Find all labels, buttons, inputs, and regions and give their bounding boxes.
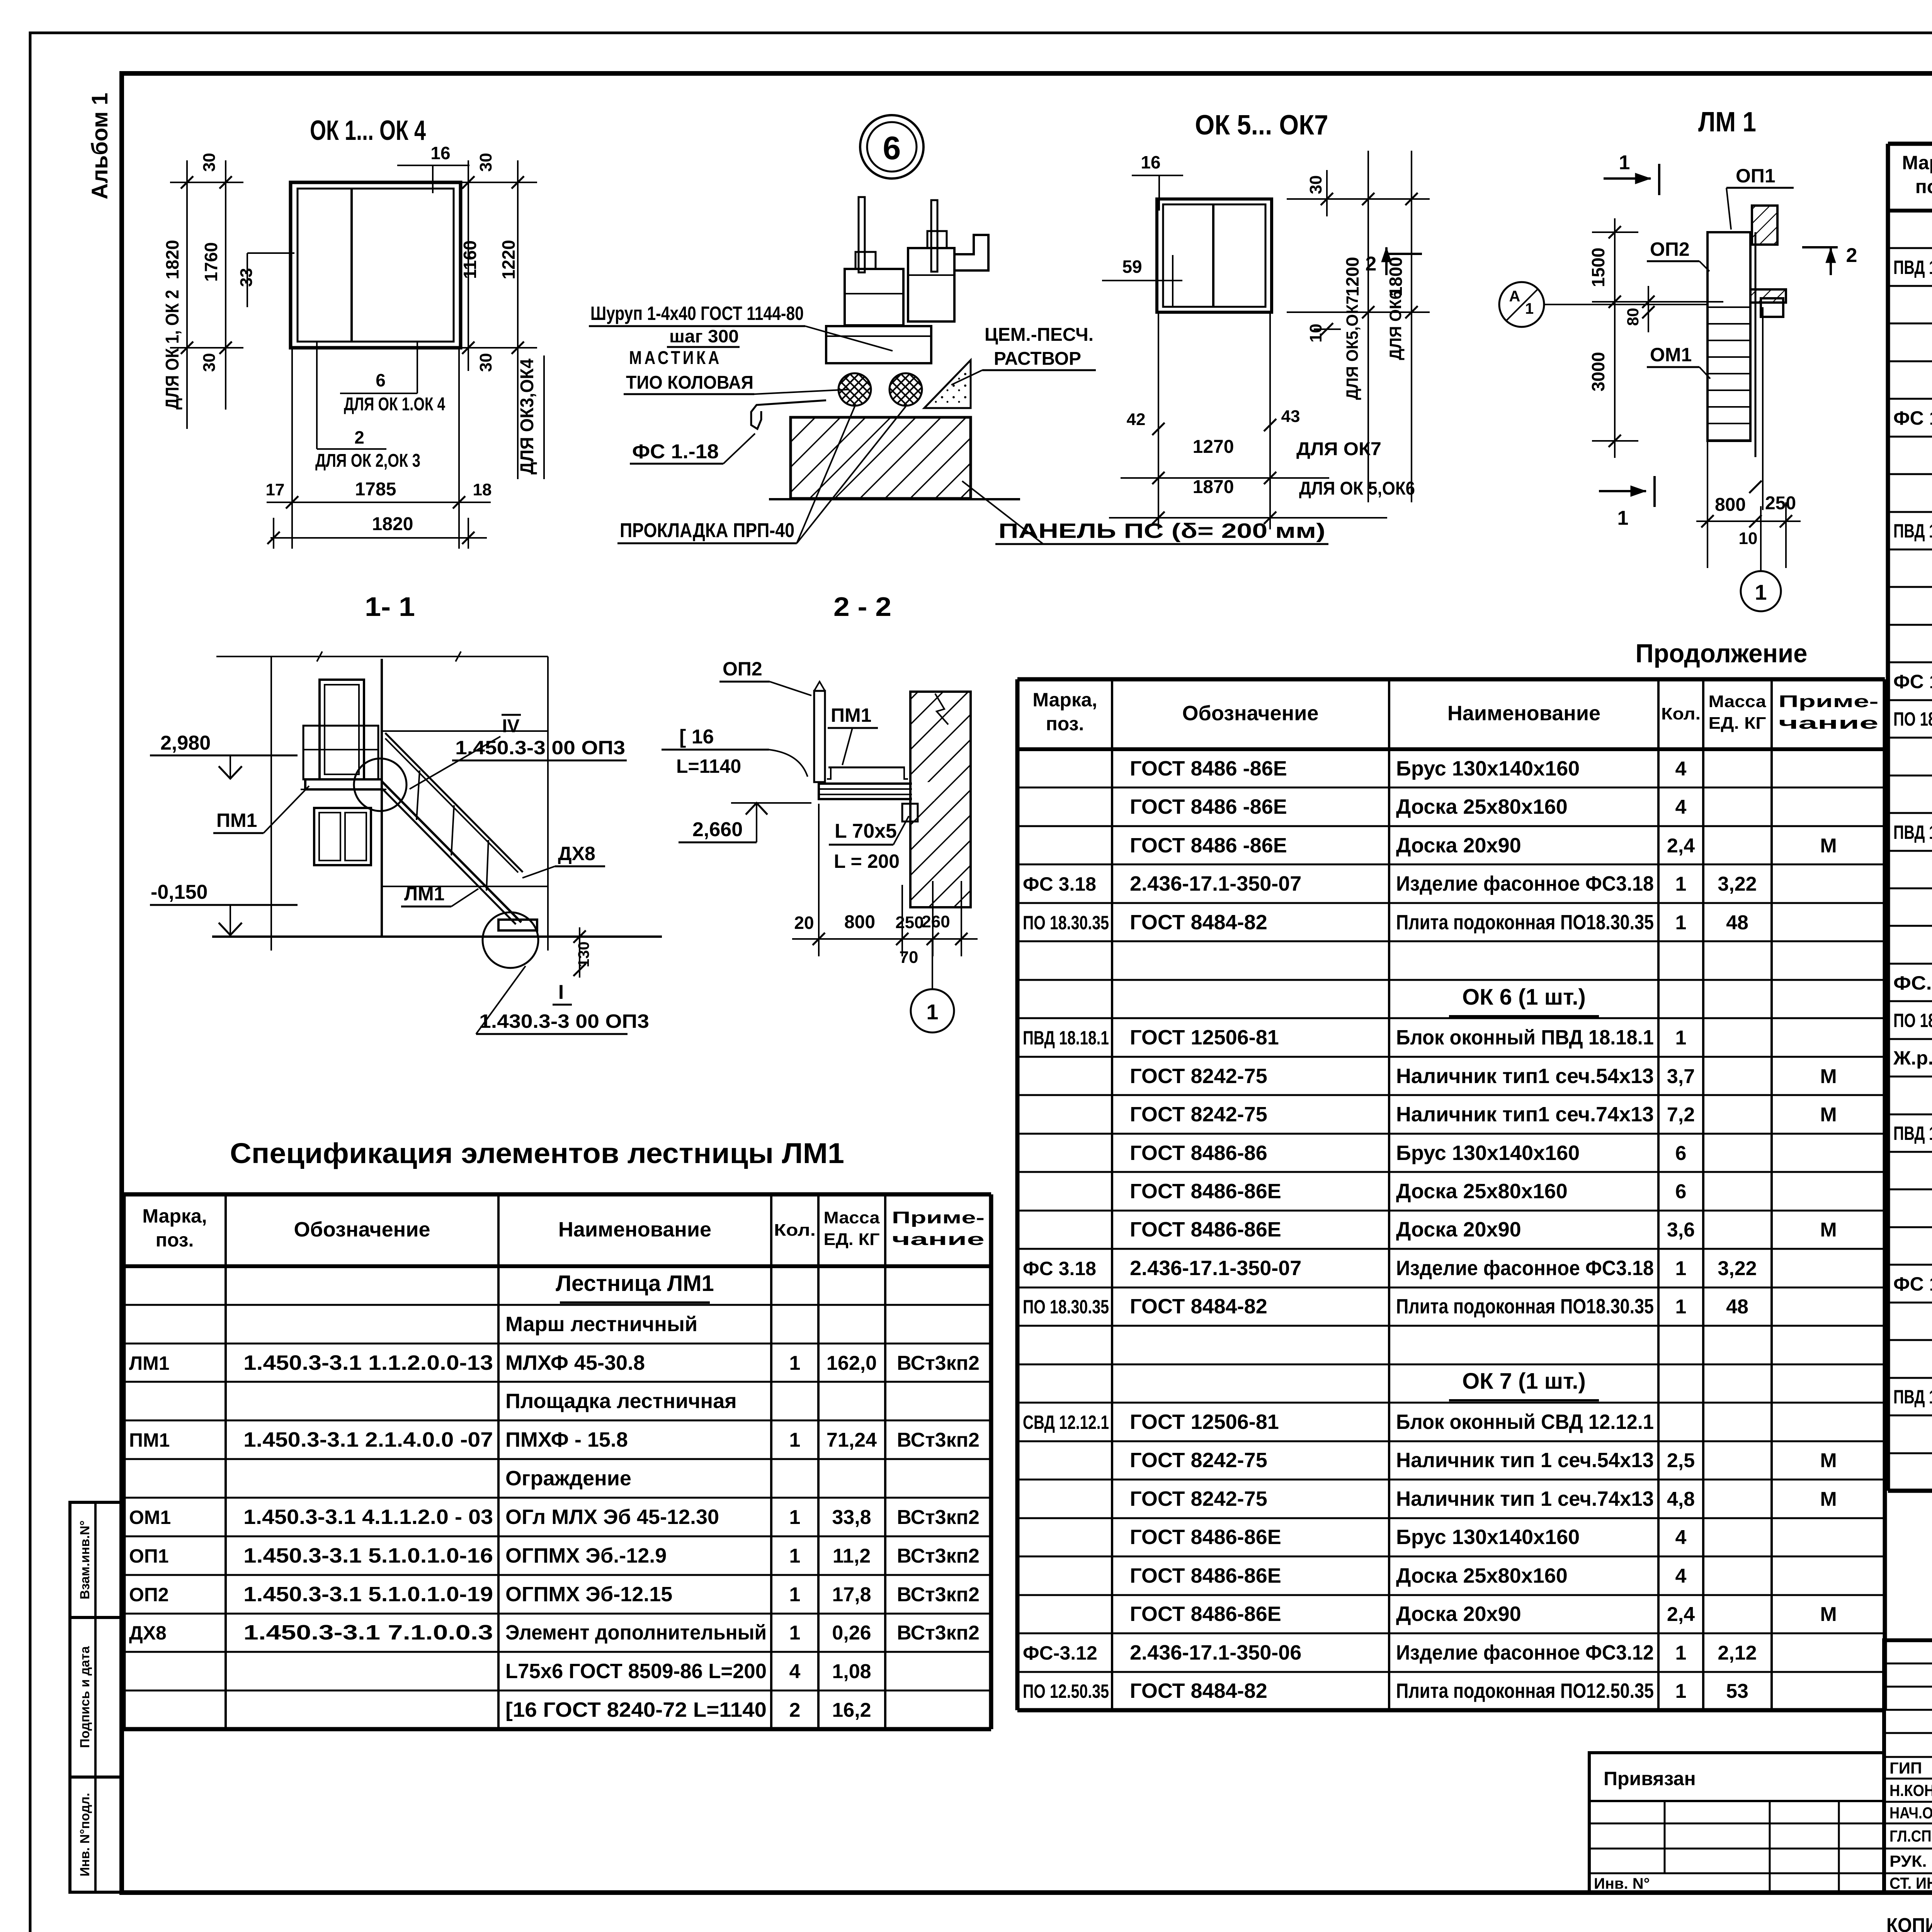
svg-text:2,660: 2,660 — [692, 818, 743, 841]
dimension chain 1500/80/3000 — [1588, 218, 1723, 458]
svg-text:ОК 5... ОК7: ОК 5... ОК7 — [1195, 110, 1328, 141]
svg-text:Брус 130х140х160: Брус 130х140х160 — [1396, 757, 1580, 780]
table grid — [1888, 144, 1932, 1491]
continuation table heading — [1636, 639, 1808, 668]
svg-text:Масса: Масса — [1709, 692, 1767, 711]
joint circle (bottom) — [483, 912, 538, 968]
svg-text:ДХ8: ДХ8 — [129, 1622, 167, 1644]
svg-text:6: 6 — [1675, 1180, 1687, 1203]
svg-text:1: 1 — [1675, 1680, 1687, 1702]
svg-text:Наименование: Наименование — [1447, 702, 1600, 725]
label OP1 — [1726, 165, 1794, 230]
svg-text:3,7: 3,7 — [1667, 1065, 1695, 1088]
svg-text:1: 1 — [1619, 151, 1630, 174]
dimension 16 (top) — [397, 143, 469, 193]
svg-text:71,24: 71,24 — [827, 1429, 877, 1451]
svg-text:ОК 1... ОК 4: ОК 1... ОК 4 — [310, 115, 426, 146]
svg-text:Обозначение: Обозначение — [294, 1218, 430, 1241]
svg-text:Марка,: Марка, — [1902, 152, 1932, 173]
svg-text:Лестница ЛМ1: Лестница ЛМ1 — [556, 1271, 714, 1296]
svg-text:ГОСТ 8242-75: ГОСТ 8242-75 — [1130, 1065, 1267, 1088]
album label — [87, 93, 112, 199]
svg-text:ГОСТ 12506-81: ГОСТ 12506-81 — [1130, 1026, 1279, 1049]
svg-text:ДЛЯ ОК5,ОК7: ДЛЯ ОК5,ОК7 — [1343, 296, 1362, 400]
svg-text:ГОСТ 8486-86Е: ГОСТ 8486-86Е — [1130, 1180, 1281, 1203]
bottom dims 20/800/250/260/70 — [792, 804, 978, 967]
svg-text:7,2: 7,2 — [1667, 1104, 1695, 1126]
table grid — [124, 1194, 991, 1729]
left table title — [230, 1137, 844, 1169]
svg-text:ГОСТ 8242-75: ГОСТ 8242-75 — [1130, 1487, 1267, 1510]
svg-text:ЛМ1: ЛМ1 — [404, 883, 445, 905]
svg-text:20: 20 — [794, 913, 814, 933]
svg-text:1: 1 — [1755, 580, 1767, 604]
svg-text:L 70х5: L 70х5 — [835, 820, 897, 842]
svg-text:ОГл МЛХ Эб 45-12.30: ОГл МЛХ Эб 45-12.30 — [505, 1505, 719, 1529]
svg-text:1220: 1220 — [498, 240, 519, 279]
svg-text:1: 1 — [1675, 873, 1687, 895]
svg-text:250: 250 — [895, 913, 923, 932]
svg-text:3,22: 3,22 — [1718, 873, 1757, 895]
svg-text:L75х6 ГОСТ 8509-86 L=200: L75х6 ГОСТ 8509-86 L=200 — [505, 1660, 767, 1683]
svg-text:ГОСТ 8242-75: ГОСТ 8242-75 — [1130, 1103, 1267, 1126]
table row texts — [129, 1271, 980, 1721]
svg-text:М: М — [1820, 1603, 1837, 1626]
svg-text:ПРОКЛАДКА ПРП-40: ПРОКЛАДКА ПРП-40 — [620, 519, 794, 542]
svg-text:Инв. N°: Инв. N° — [1594, 1875, 1650, 1892]
svg-text:ПМХФ - 15.8: ПМХФ - 15.8 — [505, 1428, 628, 1451]
svg-text:Марка,: Марка, — [1032, 689, 1097, 711]
svg-text:РУК. ГР.: РУК. ГР. — [1889, 1852, 1932, 1870]
svg-text:1- 1: 1- 1 — [365, 592, 415, 622]
svg-text:3,22: 3,22 — [1718, 1257, 1757, 1280]
svg-text:ГОСТ 12506-81: ГОСТ 12506-81 — [1130, 1410, 1279, 1434]
svg-text:КОПИРОВАЛ БАБИНА: КОПИРОВАЛ БАБИНА — [1886, 1914, 1932, 1932]
svg-text:1: 1 — [789, 1583, 801, 1606]
svg-text:ПВД 12.18.1: ПВД 12.18.1 — [1893, 1122, 1932, 1144]
level mark 2,660 — [679, 803, 811, 842]
section 2-2 post OP2 — [814, 682, 825, 782]
section mark 1 (top) — [1604, 151, 1659, 195]
svg-text:2,4: 2,4 — [1667, 835, 1695, 857]
svg-text:ФС 1.-18: ФС 1.-18 — [632, 440, 719, 463]
detail 6 marker circle — [860, 115, 923, 179]
side stamp strip — [70, 1502, 122, 1892]
svg-text:1.450.3-3.1 5.1.0.1.0-16: 1.450.3-3.1 5.1.0.1.0-16 — [243, 1544, 493, 1567]
svg-text:Кол.: Кол. — [1661, 704, 1701, 723]
svg-text:48: 48 — [1726, 1296, 1748, 1318]
section 2-2 platform — [819, 767, 933, 799]
svg-text:Ограждение: Ограждение — [505, 1467, 631, 1490]
svg-text:Продолжение: Продолжение — [1636, 639, 1808, 668]
section mark 2 (left) — [1366, 247, 1422, 275]
detail circle 1 (plan) — [1741, 506, 1781, 611]
svg-text:ОМ1: ОМ1 — [129, 1507, 171, 1528]
svg-text:1: 1 — [1675, 1642, 1687, 1664]
svg-text:Изделие фасонное ФС3.18: Изделие фасонное ФС3.18 — [1396, 872, 1654, 895]
svg-text:Наличник тип1 сеч.74х13: Наличник тип1 сеч.74х13 — [1396, 1103, 1654, 1126]
svg-text:[16 ГОСТ 8240-72 L=1140: [16 ГОСТ 8240-72 L=1140 — [505, 1698, 767, 1721]
dimension 59 (OK5 left) — [1102, 255, 1182, 306]
svg-text:чание: чание — [892, 1230, 985, 1249]
svg-text:1: 1 — [1675, 1296, 1687, 1318]
bottom dims 42/43 1270/1870 OK5 — [1109, 314, 1415, 529]
svg-text:ГОСТ 8484-82: ГОСТ 8484-82 — [1130, 911, 1267, 934]
svg-text:ОМ1: ОМ1 — [1650, 344, 1692, 366]
svg-text:42: 42 — [1127, 410, 1146, 429]
svg-text:ВСт3кп2: ВСт3кп2 — [897, 1622, 980, 1644]
svg-text:1: 1 — [789, 1622, 801, 1644]
svg-text:ОП1: ОП1 — [129, 1545, 169, 1567]
attachment block (Привязан) — [1589, 1753, 1884, 1893]
svg-text:2: 2 — [789, 1699, 801, 1721]
svg-text:ПАНЕЛЬ ПС (δ= 200 мм): ПАНЕЛЬ ПС (δ= 200 мм) — [998, 519, 1325, 543]
svg-text:ТИО КОЛОВАЯ: ТИО КОЛОВАЯ — [626, 372, 753, 393]
svg-text:L=1140: L=1140 — [676, 755, 741, 777]
svg-text:ДЛЯ ОК 2,ОК 3: ДЛЯ ОК 2,ОК 3 — [315, 451, 420, 471]
svg-text:Альбом 1: Альбом 1 — [87, 93, 112, 199]
svg-text:ПМ1: ПМ1 — [129, 1429, 170, 1451]
svg-text:ОГПМХ Эб-12.15: ОГПМХ Эб-12.15 — [505, 1583, 672, 1606]
svg-text:ФС 3.18: ФС 3.18 — [1023, 873, 1096, 895]
svg-text:ОК 7 (1 шт.): ОК 7 (1 шт.) — [1462, 1369, 1586, 1394]
svg-text:59: 59 — [1122, 257, 1142, 277]
section 1-1 lower window — [314, 808, 371, 865]
table grid — [1017, 679, 1885, 1710]
svg-text:ВСт3кп2: ВСт3кп2 — [897, 1545, 980, 1567]
label: cement mortar — [951, 325, 1096, 385]
svg-text:1: 1 — [789, 1545, 801, 1567]
label channel 16 — [662, 726, 808, 777]
svg-text:48: 48 — [1726, 912, 1748, 934]
level mark -0,150 — [150, 881, 298, 935]
label: mastika — [624, 348, 849, 394]
svg-text:1270: 1270 — [1193, 437, 1234, 457]
svg-text:ОК 6 (1 шт.): ОК 6 (1 шт.) — [1462, 985, 1586, 1010]
section 1-1 wall and dims — [216, 651, 548, 951]
svg-text:ФС 1.18: ФС 1.18 — [1893, 407, 1932, 429]
svg-text:ПМ1: ПМ1 — [831, 704, 871, 726]
svg-text:1: 1 — [789, 1352, 801, 1374]
svg-text:ВСт3кп2: ВСт3кп2 — [897, 1506, 980, 1529]
svg-text:ЦЕМ.-ПЕСЧ.: ЦЕМ.-ПЕСЧ. — [985, 325, 1094, 345]
svg-text:ЛМ 1: ЛМ 1 — [1698, 107, 1756, 138]
svg-text:1: 1 — [1675, 1257, 1687, 1280]
svg-text:ГОСТ 8486 -86Е: ГОСТ 8486 -86Е — [1130, 795, 1287, 818]
svg-text:Подпись и дата: Подпись и дата — [78, 1646, 92, 1748]
svg-text:Инв. N°подл.: Инв. N°подл. — [78, 1793, 92, 1876]
svg-text:ПВД 18.18.1: ПВД 18.18.1 — [1023, 1027, 1109, 1049]
svg-text:ПО 18.20.35: ПО 18.20.35 — [1893, 708, 1932, 730]
svg-text:250: 250 — [1765, 493, 1796, 514]
svg-text:1: 1 — [1617, 507, 1629, 529]
svg-text:4,8: 4,8 — [1667, 1488, 1695, 1510]
svg-text:ФС 3.18: ФС 3.18 — [1023, 1258, 1096, 1279]
svg-text:2,5: 2,5 — [1667, 1449, 1695, 1472]
svg-text:[ 16: [ 16 — [679, 726, 714, 748]
svg-text:0,26: 0,26 — [832, 1622, 871, 1644]
svg-text:1870: 1870 — [1193, 477, 1234, 497]
svg-text:М: М — [1820, 1449, 1837, 1472]
svg-text:СВД 12.12.1: СВД 12.12.1 — [1023, 1412, 1109, 1433]
section 2-2 wall — [902, 692, 971, 907]
svg-text:ФС. 1.18: ФС. 1.18 — [1893, 972, 1932, 994]
svg-text:ГЛ.СПЕЦ.: ГЛ.СПЕЦ. — [1889, 1827, 1932, 1845]
svg-text:МАСТИКА: МАСТИКА — [629, 348, 722, 368]
svg-text:Наличник тип 1 сеч.54х13: Наличник тип 1 сеч.54х13 — [1396, 1449, 1654, 1472]
svg-text:1500: 1500 — [1588, 248, 1608, 287]
svg-text:6: 6 — [376, 370, 386, 390]
svg-text:ПО 12.50.35: ПО 12.50.35 — [1023, 1680, 1109, 1702]
svg-text:М: М — [1820, 1488, 1837, 1510]
dim 130 (1-1) — [573, 927, 592, 978]
svg-text:30: 30 — [200, 153, 219, 172]
svg-text:ФС-3.12: ФС-3.12 — [1023, 1642, 1097, 1664]
label: screw gost — [589, 303, 893, 351]
label: FS 1-18 — [630, 434, 755, 464]
label LM1 (1-1) — [401, 883, 478, 906]
svg-text:ОП2: ОП2 — [1650, 238, 1690, 260]
svg-text:ПВД 12.18.1: ПВД 12.18.1 — [1893, 1386, 1932, 1408]
dimension 33 (mullion) — [237, 253, 294, 307]
svg-text:Обозначение: Обозначение — [1182, 702, 1318, 725]
node I reference — [476, 966, 649, 1034]
svg-text:Доска 25х80х160: Доска 25х80х160 — [1396, 1180, 1568, 1203]
section 1-1 title — [365, 592, 415, 622]
svg-text:Блок оконный СВД 12.12.1: Блок оконный СВД 12.12.1 — [1396, 1410, 1654, 1434]
svg-text:РАСТВОР: РАСТВОР — [994, 349, 1081, 369]
svg-text:ВСт3кп2: ВСт3кп2 — [897, 1583, 980, 1606]
svg-text:шаг 300: шаг 300 — [669, 326, 739, 346]
svg-text:1: 1 — [1675, 1027, 1687, 1049]
svg-text:-0,150: -0,150 — [151, 881, 207, 903]
svg-text:1200: 1200 — [1342, 257, 1362, 296]
svg-text:ГОСТ 8486-86Е: ГОСТ 8486-86Е — [1130, 1218, 1281, 1241]
detail 6 panel PS — [769, 417, 1020, 499]
svg-text:ФС 1.18: ФС 1.18 — [1893, 1273, 1932, 1295]
svg-text:1: 1 — [1525, 300, 1534, 317]
svg-text:ОП1: ОП1 — [1736, 165, 1776, 187]
svg-text:ДЛЯ ОК3,ОК4: ДЛЯ ОК3,ОК4 — [517, 359, 537, 474]
svg-text:1: 1 — [926, 1000, 938, 1024]
svg-text:1: 1 — [789, 1429, 801, 1451]
svg-text:ЛМ1: ЛМ1 — [129, 1352, 170, 1374]
svg-text:ВСт3кп2: ВСт3кп2 — [897, 1429, 980, 1451]
svg-text:А: А — [1509, 288, 1520, 305]
svg-text:Изделие фасонное ФС3.12: Изделие фасонное ФС3.12 — [1396, 1641, 1654, 1664]
section 1-1 upper window — [303, 680, 378, 779]
svg-text:800: 800 — [1715, 495, 1746, 515]
svg-text:1.430.3-3 00 ОП3: 1.430.3-3 00 ОП3 — [479, 1010, 649, 1032]
svg-text:1.450.3-3.1 1.1.2.0.0-13: 1.450.3-3.1 1.1.2.0.0-13 — [243, 1351, 493, 1374]
svg-text:16,2: 16,2 — [832, 1699, 871, 1721]
svg-text:L = 200: L = 200 — [834, 850, 900, 872]
svg-text:2.436-17.1-350-06: 2.436-17.1-350-06 — [1130, 1641, 1301, 1664]
axis circle A/1 — [1499, 282, 1708, 327]
svg-text:4: 4 — [1675, 1526, 1687, 1549]
section mark 2 (right) — [1802, 244, 1857, 275]
window OK5..OK7 outline — [1157, 199, 1272, 312]
table row texts — [1023, 757, 1837, 1702]
svg-text:2: 2 — [354, 427, 364, 447]
svg-text:1.450.3-3.1 2.1.4.0.0 -07: 1.450.3-3.1 2.1.4.0.0 -07 — [243, 1428, 493, 1451]
window OK1..OK4 outline — [291, 182, 461, 348]
svg-text:ГОСТ 8484-82: ГОСТ 8484-82 — [1130, 1679, 1267, 1702]
detail 6 window frame profiles — [845, 231, 988, 325]
svg-text:1760: 1760 — [201, 242, 221, 282]
svg-text:Марка,: Марка, — [142, 1205, 207, 1227]
svg-text:4: 4 — [1675, 758, 1687, 780]
svg-text:ДЛЯ ОК 5,ОК6: ДЛЯ ОК 5,ОК6 — [1299, 478, 1415, 499]
svg-text:Изделие фасонное ФС3.18: Изделие фасонное ФС3.18 — [1396, 1257, 1654, 1280]
svg-text:Привязан: Привязан — [1604, 1768, 1696, 1789]
label: gasket PRP-40 — [617, 406, 906, 543]
svg-text:ПО 18.30.35: ПО 18.30.35 — [1023, 1296, 1109, 1318]
section mark 1 (bottom) — [1599, 476, 1655, 529]
stair flight plan — [1708, 232, 1763, 510]
svg-text:Площадка лестничная: Площадка лестничная — [505, 1389, 737, 1413]
svg-text:4: 4 — [1675, 1565, 1687, 1587]
svg-text:ГОСТ 8486-86Е: ГОСТ 8486-86Е — [1130, 1564, 1281, 1587]
svg-text:30: 30 — [476, 353, 495, 372]
svg-text:Доска 20х90: Доска 20х90 — [1396, 1602, 1521, 1626]
label: panel PS — [962, 481, 1328, 544]
window elevation OK5..OK7 title — [1195, 110, 1328, 141]
svg-text:6: 6 — [1675, 1142, 1687, 1165]
svg-text:СТ. ИНЖ.: СТ. ИНЖ. — [1889, 1874, 1932, 1892]
svg-text:Шуруп 1-4х40 ГОСТ 1144-80: Шуруп 1-4х40 ГОСТ 1144-80 — [590, 303, 804, 324]
bottom dimension 17/1785/18 and 1820 — [266, 348, 492, 549]
svg-text:Наличник тип 1 сеч.74х13: Наличник тип 1 сеч.74х13 — [1396, 1487, 1654, 1510]
svg-text:Доска 20х90: Доска 20х90 — [1396, 1218, 1521, 1241]
svg-text:МЛХФ 45-30.8: МЛХФ 45-30.8 — [505, 1351, 645, 1374]
wall blocks (hatched) LM1 — [1750, 206, 1786, 317]
svg-text:поз.: поз. — [156, 1229, 194, 1251]
svg-text:3000: 3000 — [1588, 352, 1608, 391]
svg-text:М: М — [1820, 835, 1837, 857]
title block — [1884, 1640, 1932, 1893]
svg-text:16: 16 — [430, 143, 450, 163]
label OP2 — [1647, 238, 1709, 271]
svg-text:4: 4 — [1675, 796, 1687, 818]
svg-text:ГИП: ГИП — [1889, 1759, 1922, 1777]
svg-text:Наименование: Наименование — [558, 1218, 711, 1241]
svg-text:33: 33 — [237, 268, 256, 287]
svg-text:ВСт3кп2: ВСт3кп2 — [897, 1352, 980, 1374]
svg-text:М: М — [1820, 1104, 1837, 1126]
svg-text:18: 18 — [473, 480, 492, 499]
svg-text:162,0: 162,0 — [827, 1352, 877, 1374]
svg-text:ОП2: ОП2 — [129, 1584, 169, 1605]
stair LM1 plan title — [1698, 107, 1756, 138]
svg-text:поз.: поз. — [1915, 176, 1932, 197]
svg-text:Спецификация элементов лес: Спецификация элементов лестницы ЛМ1 — [230, 1137, 844, 1169]
svg-text:260: 260 — [922, 912, 950, 931]
svg-text:ПВД 18.18.1: ПВД 18.18.1 — [1893, 520, 1932, 542]
detail circle 1 (2-2) — [911, 939, 954, 1032]
svg-text:43: 43 — [1281, 407, 1300, 426]
label DH8 (1-1) — [522, 843, 605, 878]
svg-text:ГОСТ 8486-86Е: ГОСТ 8486-86Е — [1130, 1526, 1281, 1549]
svg-text:30: 30 — [1306, 175, 1325, 194]
svg-text:ДЛЯ ОК 1, ОК 2: ДЛЯ ОК 1, ОК 2 — [162, 290, 183, 410]
svg-text:Ж.р.: Ж.р. — [1893, 1047, 1932, 1069]
svg-text:30: 30 — [200, 353, 219, 372]
section 1-1 stair flight — [212, 733, 662, 937]
label OP2 (2-2) — [719, 658, 811, 696]
label PM1 (2-2) — [828, 704, 878, 765]
svg-text:ГОСТ 8486-86Е: ГОСТ 8486-86Е — [1130, 1602, 1281, 1626]
svg-text:1800: 1800 — [1386, 257, 1406, 296]
svg-text:ПВД 12.18.1: ПВД 12.18.1 — [1893, 821, 1932, 843]
svg-text:3,6: 3,6 — [1667, 1219, 1695, 1241]
svg-text:Брус 130х140х160: Брус 130х140х160 — [1396, 1526, 1580, 1549]
svg-text:поз.: поз. — [1046, 713, 1084, 735]
svg-text:2: 2 — [1846, 244, 1857, 267]
detail 6 sill and flashing FS1-18 — [751, 326, 931, 429]
svg-text:Плита подоконная ПО18.30.35: Плита подоконная ПО18.30.35 — [1396, 1295, 1654, 1318]
svg-text:1820: 1820 — [372, 514, 413, 534]
svg-text:ПВД 18.18.1: ПВД 18.18.1 — [1893, 257, 1932, 278]
svg-text:I: I — [558, 981, 564, 1003]
svg-text:Блок оконный ПВД 18.18.1: Блок оконный ПВД 18.18.1 — [1396, 1026, 1654, 1049]
svg-text:53: 53 — [1726, 1680, 1748, 1702]
svg-text:Доска 20х90: Доска 20х90 — [1396, 834, 1521, 857]
svg-text:Элемент дополнительный: Элемент дополнительный — [505, 1621, 767, 1644]
left dimension chain 1820/1760 — [162, 153, 243, 429]
svg-text:6: 6 — [883, 130, 901, 166]
svg-text:2.436-17.1-350-07: 2.436-17.1-350-07 — [1130, 1257, 1301, 1280]
right dimension chain 1200/1800 OK5 — [1287, 151, 1430, 502]
svg-text:ФС 1.18: ФС 1.18 — [1893, 671, 1932, 692]
bottom dimension 6 / 2 leaders — [315, 342, 445, 471]
svg-text:17: 17 — [266, 480, 285, 499]
svg-text:ДЛЯ ОК7: ДЛЯ ОК7 — [1296, 439, 1381, 459]
svg-text:ДЛЯ ОК 1.ОК 4: ДЛЯ ОК 1.ОК 4 — [344, 394, 445, 415]
section 1-1 platform PM1 — [301, 779, 386, 789]
svg-text:2 - 2: 2 - 2 — [833, 592, 891, 622]
svg-text:1.450.3-3.1 7.1.0.0.3: 1.450.3-3.1 7.1.0.0.3 — [243, 1621, 493, 1644]
svg-text:Плита подоконная ПО12.50.35: Плита подоконная ПО12.50.35 — [1396, 1679, 1654, 1702]
level mark 2,980 — [150, 732, 298, 779]
svg-text:ГОСТ 8242-75: ГОСТ 8242-75 — [1130, 1449, 1267, 1472]
svg-text:ГОСТ 8486 -86Е: ГОСТ 8486 -86Е — [1130, 757, 1287, 780]
svg-text:ОП2: ОП2 — [723, 658, 762, 680]
svg-text:М: М — [1820, 1219, 1837, 1241]
svg-text:2.436-17.1-350-07: 2.436-17.1-350-07 — [1130, 872, 1301, 895]
svg-text:33,8: 33,8 — [832, 1506, 871, 1529]
svg-text:ГОСТ 8486-86: ГОСТ 8486-86 — [1130, 1141, 1267, 1165]
svg-text:Наличник тип1 сеч.54х13: Наличник тип1 сеч.54х13 — [1396, 1065, 1654, 1088]
svg-text:17,8: 17,8 — [832, 1583, 871, 1606]
svg-text:Приме-: Приме- — [1779, 692, 1879, 711]
detail 6 gaskets PRP-40 — [838, 373, 922, 406]
bottom dims 800/250/10 LM1 — [1696, 441, 1801, 568]
svg-text:16: 16 — [1141, 152, 1160, 172]
svg-text:1.450.3-3.1 5.1.0.1.0-19: 1.450.3-3.1 5.1.0.1.0-19 — [243, 1583, 493, 1606]
svg-text:Масса: Масса — [824, 1208, 880, 1227]
detail 6 mortar wedge — [924, 360, 971, 408]
detail 6 glass bars — [859, 197, 937, 272]
svg-text:НАЧ.ОТД.: НАЧ.ОТД. — [1889, 1804, 1932, 1822]
svg-text:4: 4 — [789, 1660, 801, 1683]
svg-text:1820: 1820 — [162, 240, 182, 279]
joint circle (top) — [354, 759, 406, 811]
svg-text:ДХ8: ДХ8 — [558, 843, 595, 864]
svg-text:70: 70 — [900, 948, 918, 967]
svg-text:чание: чание — [1779, 714, 1879, 733]
svg-text:Брус 130х140х160: Брус 130х140х160 — [1396, 1141, 1580, 1165]
